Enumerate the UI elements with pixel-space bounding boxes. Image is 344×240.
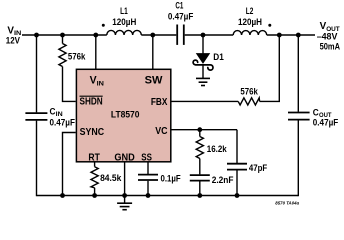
svg-text:VC: VC [155,126,167,137]
svg-text:47pF: 47pF [249,163,268,173]
pin label VIN [90,75,104,88]
node VOUT output label [317,20,341,51]
svg-text:LT8570: LT8570 [111,110,140,121]
diode D1 [193,54,213,71]
value label L1 [112,6,136,27]
svg-text:0.47µF: 0.47µF [50,117,76,127]
wire 576k to SHDN pin [63,67,76,102]
wire CIN branch upper [36,35,38,112]
wire 16.2k to 2.2nF [199,159,201,175]
wire 47pF branch upper [236,130,238,163]
svg-text:IN: IN [97,80,104,87]
wire 16.2k upper lead [199,130,201,137]
wire L1 to C1 [141,34,176,36]
svg-text:576k: 576k [240,86,258,96]
wire D1 anode [202,35,204,54]
svg-text:C: C [50,107,56,118]
svg-text:0.47µF: 0.47µF [313,118,339,128]
svg-text:C1: C1 [175,0,183,10]
wire L2 to VOUT [267,34,315,36]
capacitor C1 [177,25,184,45]
wire top rail left segment VIN to L1 [22,34,107,36]
svg-text:120µH: 120µH [112,17,136,27]
svg-text:SS: SS [141,152,152,163]
inductor L2 [233,31,267,35]
svg-text:576k: 576k [68,52,86,62]
svg-text:D1: D1 [213,52,224,62]
svg-text:50mA: 50mA [320,41,341,51]
wire COUT branch upper [297,35,299,112]
svg-text:L1: L1 [120,6,128,16]
svg-text:FBX: FBX [151,97,168,108]
ground symbol under D1 [196,78,210,85]
svg-text:SW: SW [145,75,163,87]
svg-text:12V: 12V [6,35,20,45]
capacitor COUT [288,113,310,120]
value label L2 [238,6,262,27]
wire VIN pin [95,35,97,69]
wire VC row [172,129,238,131]
value label CIN [50,107,76,128]
inductor L1 [107,30,142,35]
junction node dots bottom rail [60,193,239,198]
wire FBX resistor to output rail [260,35,280,101]
wire bottom ground rail [37,195,299,197]
wire CIN branch lower [36,121,38,197]
svg-text:2.2nF: 2.2nF [212,175,234,185]
pin label SHDN with overline [80,96,103,107]
wire 47pF lower lead [236,170,238,195]
wire 84.5k lower lead [94,188,96,196]
resistor R2 576k feedback body [238,98,259,105]
value label C1 [168,0,194,21]
svg-text:84.5k: 84.5k [100,173,122,183]
wire GND pin [124,162,126,196]
svg-text:GND: GND [114,152,134,163]
capacitor C2 0.1uF [138,175,158,180]
ground symbol under GND pin [117,196,132,210]
resistor R4 16.2k body [196,137,203,159]
wire FBX row [172,100,239,102]
node VIN input label [6,24,22,45]
svg-text:SHDN: SHDN [80,96,103,107]
wire C1 to L2 [185,34,234,36]
svg-text:SYNC: SYNC [80,127,105,138]
phase dot L2 [268,24,271,27]
svg-text:8570 TA04a: 8570 TA04a [275,201,299,207]
svg-text:0.47µF: 0.47µF [168,12,194,22]
svg-text:16.2k: 16.2k [207,144,228,154]
wire 0.1uF lower lead [147,181,149,196]
wire RT pin lead [94,162,96,167]
resistor R1 576k body [59,44,66,67]
capacitor C3 2.2nF [190,175,210,181]
wire SYNC pin to ground rail [63,133,76,196]
svg-text:L2: L2 [246,6,254,16]
svg-text:0.1µF: 0.1µF [161,173,182,183]
wire SW pin [152,35,154,69]
resistor R1 576k shutdown divider upper lead [62,35,64,44]
wire COUT branch lower [297,120,299,196]
svg-text:120µH: 120µH [238,17,262,27]
capacitor C4 47pF [227,164,247,170]
svg-text:–48V: –48V [317,31,338,41]
capacitor CIN [25,113,47,120]
phase dot L1 [102,24,105,27]
svg-text:RT: RT [88,152,100,163]
wire 2.2nF lower lead [199,181,201,195]
op-amp U1 LT8570 body [76,69,170,162]
value label COUT [313,108,339,128]
resistor R3 84.5k body [91,167,98,188]
wire SS pin lead [147,162,149,174]
junction node dots top rail [34,33,301,38]
junction node dot VC row [197,127,202,132]
wire D1 cathode to ground [202,65,204,78]
